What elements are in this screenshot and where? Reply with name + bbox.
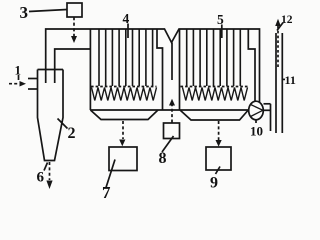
baghouse 4 shell — [89, 29, 91, 110]
bag bottom zigzag house 5 — [183, 88, 248, 101]
filter bags of house 4 — [99, 29, 153, 86]
cyclone dust outlet dashed arrow 6 — [49, 162, 51, 180]
svg-text:9: 9 — [210, 175, 218, 192]
svg-text:3: 3 — [20, 3, 29, 22]
box 9 — [206, 147, 231, 170]
fan 10 — [249, 101, 264, 120]
filter bags of house 5 — [187, 29, 241, 86]
box 7 — [109, 147, 137, 171]
wire: duct outer wall + house roofs + V notch + duct to fan — [46, 29, 260, 103]
label 7 — [106, 160, 115, 188]
box 8 — [164, 123, 180, 139]
dashed arrow hopper 4 to box 7 — [122, 121, 124, 139]
box 3 (pulse control unit) — [67, 3, 82, 17]
wire: duct inner wall from cyclone outlet to house 4 — [55, 49, 91, 83]
svg-text:8: 8 — [159, 150, 167, 167]
dashed arrow from box 3 down into duct — [73, 17, 75, 36]
stack 11 — [275, 33, 277, 133]
svg-text:7: 7 — [102, 183, 111, 200]
wire: fan outlet duct to stack — [264, 103, 271, 105]
svg-text:10: 10 — [250, 124, 263, 139]
hopper of house 4 — [90, 110, 158, 120]
dashed exhaust line inside stack — [277, 26, 279, 68]
bag bottom zigzag house 4 — [92, 88, 157, 101]
cyclone separator 2 — [38, 69, 64, 71]
label 9 — [216, 167, 221, 175]
dashed inlet arrow — [9, 83, 19, 85]
svg-text:12: 12 — [281, 14, 293, 26]
svg-text:2: 2 — [68, 125, 76, 142]
leader wire from 3 to box — [29, 10, 67, 12]
dashed tube sheet line house 5 — [181, 86, 248, 88]
baghouse 5 shell — [179, 29, 181, 110]
hopper of house 5 — [180, 110, 248, 120]
dashed arrow hopper 5 to box 9 — [218, 121, 220, 140]
label 8 — [162, 136, 174, 152]
label 11 — [282, 78, 285, 80]
dashed arrow from box 8 up into house 5 — [171, 106, 173, 123]
label 12 — [277, 23, 283, 31]
svg-text:11: 11 — [285, 73, 296, 87]
label 2 — [58, 119, 68, 129]
dashed tube sheet line house 4 — [91, 86, 157, 88]
svg-text:6: 6 — [37, 170, 45, 186]
inlet duct node 1 — [28, 78, 38, 80]
svg-text:5: 5 — [217, 12, 224, 27]
wire: channel between houses, vertex line — [171, 43, 173, 81]
